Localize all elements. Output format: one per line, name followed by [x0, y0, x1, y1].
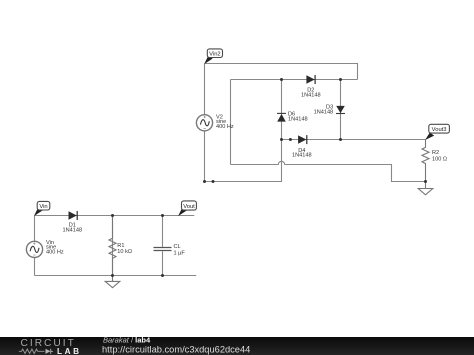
- wire Vout3 row: [282, 139, 426, 141]
- label R2 100 Ohm: [432, 150, 447, 162]
- svg-text:Vin2: Vin2: [209, 52, 221, 58]
- logo resistor zigzag: [19, 349, 45, 354]
- svg-text:Vout3: Vout3: [432, 127, 447, 133]
- svg-text:LAB: LAB: [57, 347, 82, 355]
- logo LAB: [57, 347, 82, 355]
- label D3 1N4148: [314, 105, 334, 116]
- wire D6 column upper: [281, 80, 283, 140]
- voltage source V2: [196, 115, 212, 131]
- wire top from Vin2 node to right column: [205, 64, 358, 80]
- resistor R2: [422, 140, 429, 182]
- svg-text:Vin: Vin: [39, 204, 47, 210]
- svg-text:1N4148: 1N4148: [301, 92, 321, 98]
- footer title Barakat / lab4: [103, 336, 151, 345]
- wire left inner column: [230, 80, 232, 165]
- wire top row (Vin to Vout): [35, 215, 195, 217]
- wire bottom row: [35, 275, 197, 277]
- label D1 1N4148: [62, 223, 82, 234]
- label D2 1N4148: [301, 88, 321, 99]
- svg-text:1N4148: 1N4148: [292, 153, 312, 159]
- wire D6 column lower to V2 bottom: [205, 140, 282, 182]
- svg-text:400 Hz: 400 Hz: [46, 250, 64, 256]
- label CL 1 uF: [174, 244, 186, 256]
- svg-text:1N4148: 1N4148: [314, 110, 334, 116]
- voltage source Vin: [26, 241, 42, 257]
- svg-text:R1: R1: [117, 243, 124, 249]
- footer bar: [0, 337, 474, 355]
- label D6 1N4148: [288, 112, 308, 123]
- svg-text:Vout: Vout: [183, 204, 195, 210]
- ground (bottom circuit): [105, 276, 120, 288]
- resistor R1: [109, 216, 116, 276]
- junction dots (bottom circuit): [111, 214, 164, 277]
- svg-text:Barakat / lab4: Barakat / lab4: [103, 336, 151, 345]
- wire D2 row: [231, 79, 358, 81]
- ground (top circuit): [418, 182, 433, 195]
- label D4 1N4148: [292, 148, 312, 159]
- svg-text:1N4148: 1N4148: [62, 228, 82, 234]
- footer url: [102, 345, 250, 355]
- logo diode symbol: [46, 349, 54, 354]
- diode D4: [298, 135, 307, 144]
- svg-text:400 Hz: 400 Hz: [216, 124, 234, 130]
- wire R1 column: [112, 216, 114, 276]
- svg-text:10 kΩ: 10 kΩ: [117, 249, 132, 255]
- svg-text:1N4148: 1N4148: [288, 117, 308, 123]
- node flag Vout: [178, 201, 196, 216]
- svg-text:R2: R2: [432, 150, 439, 156]
- diode D2: [306, 75, 315, 84]
- label V2 sine 400 Hz: [216, 114, 234, 130]
- label Vin sine 400 Hz: [46, 240, 64, 256]
- svg-text:CL: CL: [174, 244, 181, 250]
- wire Vin column: [34, 216, 36, 276]
- diode D1: [69, 211, 78, 220]
- logo CIRCUIT: [21, 338, 76, 349]
- svg-text:1 µF: 1 µF: [174, 251, 186, 257]
- wire hop row to ground with crossover hop: [231, 161, 426, 181]
- label R1 10 kOhm: [117, 243, 132, 255]
- diode D6 (pointing up): [277, 113, 286, 121]
- node flag Vin: [34, 201, 50, 216]
- wire CL column: [162, 216, 164, 276]
- node flag Vout3: [425, 124, 449, 140]
- capacitor CL: [154, 248, 172, 251]
- wire V2 column: [204, 64, 206, 182]
- node flag Vin2: [204, 49, 222, 64]
- junction dots (top circuit): [203, 78, 427, 183]
- diode D3 (pointing down): [336, 106, 345, 114]
- wire D3 column: [340, 80, 342, 140]
- svg-text:http://circuitlab.com/c3xdqu62: http://circuitlab.com/c3xdqu62dce44: [102, 345, 250, 355]
- svg-text:100 Ω: 100 Ω: [432, 156, 447, 162]
